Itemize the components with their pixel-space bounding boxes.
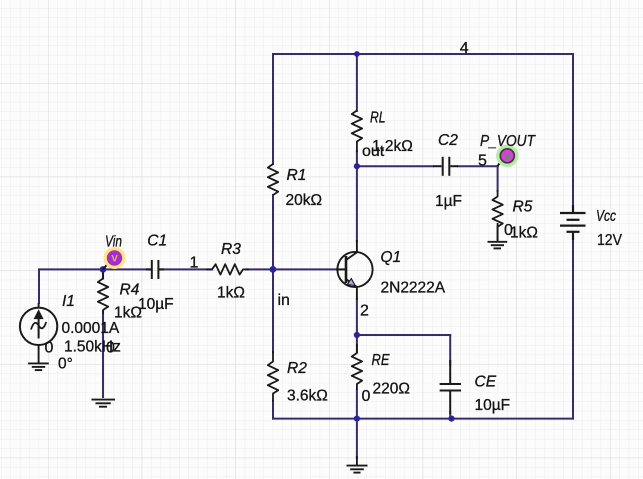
wire R4 bottom to ground [102, 312, 104, 397]
svg-text:R2: R2 [287, 360, 307, 377]
wire CE column top [449, 335, 451, 365]
resistor RL [352, 111, 362, 153]
svg-text:Vin: Vin [105, 233, 122, 250]
wire base row I1 to C1 [39, 268, 151, 270]
wire I1 column [38, 269, 40, 303]
resistor RE [352, 344, 362, 390]
node junction dot (in) [270, 266, 277, 273]
resistor R2 [268, 351, 278, 402]
wire CE column bottom [449, 412, 451, 419]
node junction dot (node 2) [354, 332, 360, 338]
wire node 2 to RE [356, 335, 358, 352]
svg-text:I1: I1 [62, 293, 75, 310]
svg-text:in: in [278, 292, 290, 309]
svg-text:1: 1 [190, 254, 199, 271]
svg-text:V: V [111, 254, 118, 265]
capacitor C2 [433, 157, 458, 176]
wire out row to C2 [357, 165, 433, 167]
svg-text:5: 5 [478, 152, 487, 169]
resistor R5 [492, 190, 502, 241]
wire Q1 emitter to node 2 [356, 299, 358, 335]
svg-text:Q1: Q1 [381, 249, 402, 266]
wire out node to Q1 collector [356, 166, 358, 241]
battery Vcc [560, 205, 586, 240]
wire C2 to node 5 corner [458, 165, 498, 167]
svg-text:C2: C2 [438, 132, 458, 149]
svg-text:C1: C1 [147, 233, 167, 250]
svg-text:0: 0 [106, 340, 115, 357]
ground (R5) [488, 223, 508, 248]
svg-text:1kΩ: 1kΩ [510, 225, 538, 242]
wire bottom rail [273, 418, 573, 420]
ground (I1) [28, 363, 49, 370]
resistor R1 [268, 164, 278, 195]
wire left column top (to R1) [272, 54, 274, 164]
wire collector column RL top [356, 54, 358, 111]
svg-text:1µF: 1µF [435, 193, 462, 210]
svg-text:R1: R1 [287, 167, 307, 184]
svg-text:10µF: 10µF [475, 397, 511, 414]
svg-text:20kΩ: 20kΩ [286, 192, 323, 209]
resistor R4 [98, 269, 108, 314]
svg-text:0: 0 [362, 388, 371, 405]
wire right column below battery [572, 239, 574, 419]
svg-text:220Ω: 220Ω [373, 380, 410, 397]
wire bottom rail to ground stem [356, 419, 358, 458]
svg-text:Vcc: Vcc [596, 208, 616, 225]
svg-text:2: 2 [360, 303, 369, 320]
svg-text:out: out [362, 143, 385, 160]
capacitor C1 [146, 260, 164, 279]
svg-text:0°: 0° [58, 356, 73, 373]
node junction dot (out) [354, 163, 360, 169]
wire node 5 down to R5 [497, 166, 499, 191]
svg-text:R4: R4 [120, 281, 140, 298]
capacitor CE [440, 360, 461, 414]
wire RL bottom to out node [356, 151, 358, 166]
probe P_VOUT [498, 146, 517, 166]
svg-text:P_VOUT: P_VOUT [480, 133, 536, 150]
node junction dot (RE bottom) [354, 416, 360, 422]
wire R4 top lead [102, 269, 104, 278]
svg-text:3.6kΩ: 3.6kΩ [287, 388, 328, 405]
ground (R4) [92, 400, 116, 407]
wire base row R3 to Q1 base [246, 268, 336, 270]
svg-text:R3: R3 [221, 241, 241, 258]
svg-text:0: 0 [45, 339, 54, 356]
svg-text:1kΩ: 1kΩ [217, 285, 245, 302]
transistor Q1 [336, 240, 373, 300]
wire R2 column top [272, 269, 274, 352]
ground (bottom rail) [347, 456, 368, 473]
wire RE bottom to bottom rail [356, 390, 358, 419]
wire node 2 row to CE [357, 334, 450, 336]
svg-text:10µF: 10µF [138, 296, 174, 313]
wire top rail node 4 [273, 53, 573, 55]
svg-text:2N2222A: 2N2222A [381, 280, 446, 297]
svg-text:RE: RE [372, 352, 391, 369]
probe Vin [103, 249, 124, 270]
svg-text:V: V [504, 151, 511, 162]
wire base row C1 to R3 [159, 268, 212, 270]
svg-text:4: 4 [460, 40, 469, 57]
current source I1 [20, 303, 57, 363]
node junction dot (CE bottom) [448, 416, 454, 422]
wire right column to battery [572, 54, 574, 206]
resistor R3 [206, 264, 249, 274]
svg-text:0.0001A: 0.0001A [62, 320, 120, 337]
svg-text:RL: RL [370, 110, 386, 127]
svg-text:CE: CE [475, 374, 497, 391]
wire left column below R1 to base node [272, 195, 274, 269]
wire R2 bottom to bottom rail [272, 401, 274, 419]
node junction dot (Vin) [100, 266, 107, 273]
node junction dot (top rail / RL) [354, 51, 360, 57]
svg-text:R5: R5 [513, 199, 533, 216]
svg-text:12V: 12V [597, 232, 623, 249]
